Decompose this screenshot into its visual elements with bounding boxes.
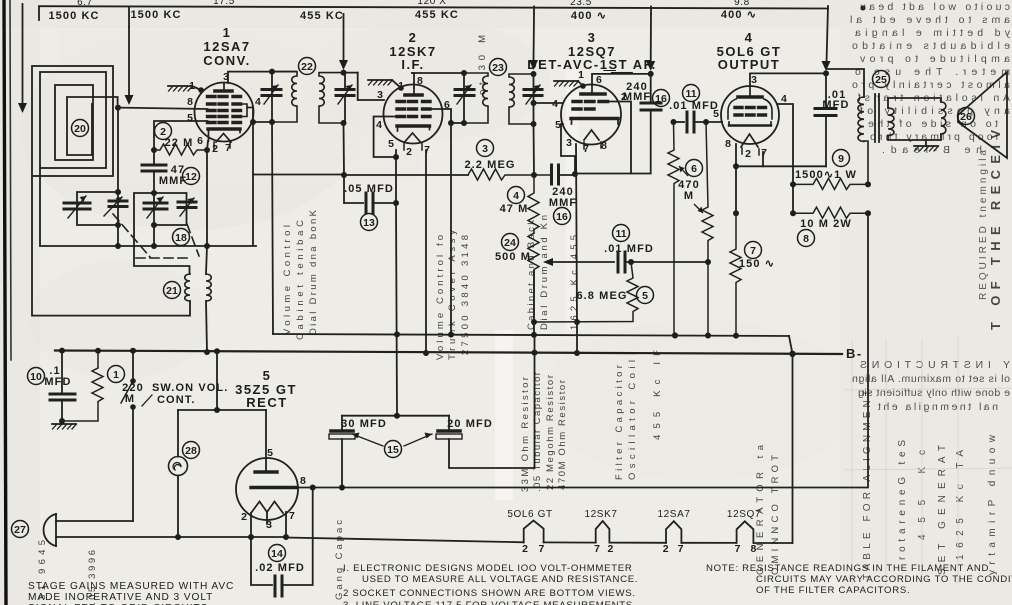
svg-text:3: 3 xyxy=(377,89,383,101)
svg-text:12: 12 xyxy=(185,171,197,183)
B- drop to heater string xyxy=(792,354,794,543)
svg-text:OUTPUT: OUTPUT xyxy=(718,57,780,72)
svg-text:nal tnemngila eht: nal tnemngila eht xyxy=(878,401,998,413)
arrows from 470M label xyxy=(679,166,688,176)
svg-text:MFD: MFD xyxy=(44,376,71,388)
svg-text:24: 24 xyxy=(504,237,516,249)
cap 20MFD C15b xyxy=(448,416,450,429)
svg-text:16: 16 xyxy=(556,211,568,223)
svg-text:1: 1 xyxy=(113,369,119,381)
svg-text:10 M 2W: 10 M 2W xyxy=(800,218,852,230)
svg-text:7: 7 xyxy=(424,144,430,156)
svg-text:11: 11 xyxy=(615,228,626,240)
tube T3 12SQ7 envelope xyxy=(561,85,621,145)
resistor 6.8MEG R5 xyxy=(534,262,638,322)
svg-text:7: 7 xyxy=(289,510,295,522)
second 470M zigzag R6b x708 xyxy=(702,122,713,338)
osc coil L21 left winding xyxy=(185,274,190,301)
svg-text:3: 3 xyxy=(223,71,229,83)
svg-text:cuoito wol adt beau: cuoito wol adt beau xyxy=(860,1,1010,13)
svg-text:rotareneG teS: rotareneG teS xyxy=(897,440,908,560)
svg-text:2: 2 xyxy=(160,126,166,138)
svg-text:CONV.: CONV. xyxy=(203,53,250,68)
T2 top wire xyxy=(412,73,414,88)
callout 27 power plug xyxy=(12,521,29,538)
svg-text:5: 5 xyxy=(263,368,272,383)
svg-text:DET-AVC-1͟S͟T͟ AF.: DET-AVC-1͟S͟T͟ AF. xyxy=(527,57,656,74)
svg-text:455 Kc IF: 455 Kc IF xyxy=(652,350,663,440)
callout 3 resistor 2.2MEG xyxy=(477,140,494,157)
node 118,192 xyxy=(115,189,121,195)
svg-text:ams to theve edt al: ams to theve edt al xyxy=(850,14,1010,26)
svg-text:1: 1 xyxy=(578,69,584,81)
header drop right + arrow xyxy=(827,6,829,63)
svg-text:5: 5 xyxy=(642,290,648,302)
svg-text:8: 8 xyxy=(725,138,731,150)
middle faint vertical text columns xyxy=(37,35,781,605)
svg-text:20 MFD: 20 MFD xyxy=(447,418,493,430)
T1 pin4 wire xyxy=(247,108,253,246)
callout 9 resistor 1500 xyxy=(833,150,850,167)
callout 12 capacitor 47MMF xyxy=(183,168,200,185)
cap .01MFD C11a xyxy=(617,252,620,272)
svg-text:5: 5 xyxy=(555,119,561,131)
IF1 secondary coil xyxy=(319,73,344,123)
svg-text:4: 4 xyxy=(513,190,519,202)
callout 18 tuning gang xyxy=(173,229,190,246)
right vertical mirrored headline xyxy=(988,130,1003,330)
svg-text:120 X: 120 X xyxy=(417,0,446,7)
svg-text:25: 25 xyxy=(875,74,887,86)
svg-text:6: 6 xyxy=(691,163,697,175)
wire x154 down xyxy=(153,193,155,246)
svg-text:16: 16 xyxy=(655,93,667,105)
svg-text:2: 2 xyxy=(607,543,613,555)
T2 filament pin stubs xyxy=(403,143,405,150)
node 272,71.6 xyxy=(269,69,275,75)
screen riser x793 xyxy=(778,104,793,213)
svg-text:15: 15 xyxy=(387,444,399,456)
header rule xyxy=(39,6,828,8)
transformer core xyxy=(875,94,879,142)
socket hump 12SQ7 xyxy=(737,521,754,543)
svg-text:SW.ON VOL.: SW.ON VOL. xyxy=(152,382,228,394)
callout 11 capacitor .01MFD coupling xyxy=(683,85,700,102)
voice coil xyxy=(941,102,946,134)
wire: loop bottom to tuning line xyxy=(40,168,118,246)
resistor 2.2MEG R3 xyxy=(468,169,552,180)
callout 21 oscillator coil xyxy=(164,282,181,299)
cap 240MMF C16b xyxy=(650,74,652,103)
callout 13 capacitor .05MFD xyxy=(361,214,378,231)
svg-text:.02 MFD: .02 MFD xyxy=(255,562,305,574)
callout 2 resistor 22M xyxy=(155,123,172,140)
svg-text:21: 21 xyxy=(166,285,178,297)
callout 8 resistor 10M xyxy=(798,230,815,247)
right lower bleed horizontal lines xyxy=(852,359,1010,413)
svg-text:7: 7 xyxy=(750,245,756,257)
T3 pin3 cathode down xyxy=(576,144,577,322)
ground at speaker xyxy=(925,140,927,146)
T4 pin7 stub xyxy=(762,152,764,166)
callout slash for switch xyxy=(142,395,152,406)
output transformer T25 primary xyxy=(858,97,864,141)
B+ riser x868 down xyxy=(297,213,868,487)
callout 10 capacitor .1MFD xyxy=(28,368,45,385)
volume pot 500M R24 xyxy=(528,233,539,316)
svg-text:3: 3 xyxy=(751,74,757,86)
svg-text:13: 13 xyxy=(363,217,375,229)
svg-text:T OF THE RECEIV: T OF THE RECEIV xyxy=(988,130,1003,330)
resistor 1500 R9 xyxy=(793,178,868,189)
bus1 y335 xyxy=(273,334,789,336)
speaker cone xyxy=(958,72,1007,158)
cap .01MFD C11b coupling xyxy=(674,121,685,123)
svg-text:MFD: MFD xyxy=(822,99,849,111)
wire IF1 left vertical down to bus1 xyxy=(272,122,273,334)
svg-text:8: 8 xyxy=(750,543,756,555)
svg-text:.01 MFD: .01 MFD xyxy=(669,100,719,112)
node 272,122 xyxy=(269,119,275,125)
T1 internals xyxy=(208,83,248,142)
cap .02MFD C14 xyxy=(251,537,272,585)
faint bleed columns near T3 xyxy=(526,215,550,330)
svg-text:I. ELECTRONIC DESIGNS MODEL: I. ELECTRONIC DESIGNS MODEL IOO VOLT-OHM… xyxy=(343,563,633,574)
svg-text:28: 28 xyxy=(185,445,197,457)
svg-text:RECT: RECT xyxy=(246,395,287,410)
callout 16 capacitor 240MMF grid xyxy=(554,208,571,225)
resistor 150 R7 xyxy=(730,213,741,333)
node 207,352 xyxy=(204,349,210,355)
socket hump 12SK7 xyxy=(596,521,610,543)
svg-text:7: 7 xyxy=(594,543,600,555)
arrows from 15 xyxy=(352,434,383,446)
wire grid line to pin 8 xyxy=(118,108,208,109)
T2 internals xyxy=(397,88,430,142)
svg-text:3: 3 xyxy=(482,143,488,155)
B- bus y352 xyxy=(55,351,842,355)
T3 filament pin stubs xyxy=(583,142,585,149)
svg-text:1: 1 xyxy=(189,80,195,92)
svg-text:CONT.: CONT. xyxy=(157,394,196,406)
switch SW xyxy=(132,351,134,381)
node 253,122 xyxy=(250,119,256,125)
T2 cathode x396 down xyxy=(395,150,397,203)
T1 pin6 wire xyxy=(207,141,208,150)
svg-text:2.2 MEG: 2.2 MEG xyxy=(464,159,515,171)
callout 28 pilot lamp xyxy=(183,442,200,459)
cap 240MMF C16a xyxy=(550,165,553,184)
T1 pin3 top wire xyxy=(228,72,296,83)
cap .1MFD C10 xyxy=(61,351,63,394)
svg-text:6.7: 6.7 xyxy=(77,0,93,8)
svg-text:8: 8 xyxy=(601,140,607,152)
T3 pin6 top wire xyxy=(592,74,651,85)
antenna section tuning box xyxy=(77,192,118,225)
T5 pin stubs xyxy=(250,513,252,537)
svg-text:6: 6 xyxy=(596,74,602,86)
svg-text:2: 2 xyxy=(745,148,751,160)
T1 filament pin stubs xyxy=(213,142,215,149)
svg-text:1500∿1 W: 1500∿1 W xyxy=(795,169,857,181)
arrow at 12SA7 grid wire xyxy=(125,95,134,105)
wire: signal drop to 12SA7 grid xyxy=(128,27,130,96)
header tick x129 top xyxy=(128,7,130,27)
wire IF2 right down to grid network xyxy=(533,124,536,175)
right lower bleed table xyxy=(862,390,998,580)
svg-text:6: 6 xyxy=(197,135,203,147)
node 154,193 xyxy=(151,190,157,196)
svg-text:400 ∿: 400 ∿ xyxy=(721,9,757,21)
svg-text:amplitude to prov: amplitude to prov xyxy=(859,53,1010,65)
svg-text:6: 6 xyxy=(444,99,450,111)
T3 pin5 wire to grid cap xyxy=(561,124,575,175)
wire tuning line y246 xyxy=(118,245,256,247)
svg-text:7: 7 xyxy=(735,543,741,555)
svg-text:30 MFD: 30 MFD xyxy=(341,418,387,430)
AVC riser x674 with 470M R6 xyxy=(668,122,679,336)
svg-text:17.5: 17.5 xyxy=(213,0,235,7)
T2 pin6 wire down xyxy=(430,109,451,123)
IF2 right trimmer xyxy=(524,88,542,91)
jog to output transformer xyxy=(827,69,865,97)
callout 11 capacitor .01MFD wiper xyxy=(613,225,630,242)
T3 internals xyxy=(571,85,618,140)
callout 23 IF transformer 2 xyxy=(490,59,507,76)
svg-text:4: 4 xyxy=(376,119,382,131)
svg-text:5OL6 GT: 5OL6 GT xyxy=(507,509,552,520)
svg-text:11: 11 xyxy=(685,88,696,100)
wire y166 to .01 xyxy=(736,165,826,167)
svg-text:7: 7 xyxy=(583,143,589,155)
svg-text:22: 22 xyxy=(301,61,313,73)
wire: loop outer to osc return xyxy=(32,176,190,316)
header tick left xyxy=(38,7,40,20)
right page bleed horizontal mirrored lines xyxy=(850,1,1010,156)
svg-text:7: 7 xyxy=(538,543,544,555)
svg-text:23.5: 23.5 xyxy=(570,0,592,8)
svg-text:8: 8 xyxy=(803,233,809,245)
arrow drop to T3 xyxy=(650,14,652,64)
node 154,225 xyxy=(151,222,157,228)
T3 pin2 diode wire xyxy=(608,102,632,174)
node 118,246 xyxy=(115,243,121,249)
filter node line y415 xyxy=(342,415,449,417)
svg-text:9: 9 xyxy=(838,153,844,165)
svg-text:47 M: 47 M xyxy=(500,203,529,215)
svg-text:1500 KC: 1500 KC xyxy=(48,10,99,22)
svg-text:150 ∿: 150 ∿ xyxy=(739,258,775,270)
IF2 right vertical from header xyxy=(533,14,536,62)
svg-text:8: 8 xyxy=(300,475,306,487)
plug P27 xyxy=(55,514,57,546)
svg-text:1500 KC: 1500 KC xyxy=(130,9,181,21)
T4 pin3 top wire xyxy=(750,73,826,86)
IF1 T22: left vertical xyxy=(271,72,273,122)
callout 14 capacitor .02MFD xyxy=(269,545,286,562)
page edge lines xyxy=(4,0,6,605)
T1 pin1 ground bracket xyxy=(192,86,201,90)
IF2 T23: left vertical xyxy=(463,73,465,123)
svg-text:14: 14 xyxy=(271,548,283,560)
node 154,246 xyxy=(151,243,157,249)
svg-text:5: 5 xyxy=(267,447,273,459)
callout 15 filter capacitors xyxy=(385,441,402,458)
T2 pin7 wire down to B- xyxy=(425,150,427,353)
T4 internals xyxy=(728,86,772,147)
osc section tuning box xyxy=(134,193,190,274)
svg-text:7: 7 xyxy=(761,147,767,159)
wire x396 cathode down to filter node xyxy=(396,203,397,415)
IF1 left trimmer xyxy=(262,88,281,91)
variable cap osc section xyxy=(144,202,167,205)
node 154,150 xyxy=(151,147,157,153)
node 207,150 xyxy=(204,147,210,153)
svg-text:2: 2 xyxy=(406,146,412,158)
paper speck xyxy=(861,6,864,9)
svg-text:7: 7 xyxy=(678,543,684,555)
svg-text:12SQ7: 12SQ7 xyxy=(727,509,761,520)
svg-text:7: 7 xyxy=(225,142,231,154)
svg-text:2: 2 xyxy=(409,30,418,45)
IF2 secondary coil xyxy=(509,74,533,124)
wire lamp top to T5 plate xyxy=(178,409,266,411)
dashed gang line xyxy=(113,214,150,257)
svg-text:2: 2 xyxy=(522,543,528,555)
svg-text:6.8 MEG: 6.8 MEG xyxy=(576,290,627,302)
svg-text:5: 5 xyxy=(187,112,193,124)
svg-text:B-: B- xyxy=(846,346,863,361)
svg-text:M: M xyxy=(684,190,694,202)
heater string line xyxy=(286,538,524,543)
wiper arrow xyxy=(543,258,553,266)
svg-text:1625 Kc 455: 1625 Kc 455 xyxy=(569,235,580,330)
header tick x651 xyxy=(650,7,652,15)
callout 20 loop antenna xyxy=(72,120,89,137)
svg-text:455 KC: 455 KC xyxy=(415,9,459,21)
.05MFD C13 line xyxy=(344,202,363,204)
T4 pin8 cathode wire xyxy=(735,144,737,166)
svg-text:8: 8 xyxy=(187,96,193,108)
resistor 10M R8 xyxy=(793,207,868,218)
callout 16 capacitor 240MMF plate xyxy=(653,90,670,107)
svg-text:12SK7: 12SK7 xyxy=(584,509,617,520)
AVC line left tail xyxy=(253,174,344,176)
IF2 left trimmer xyxy=(455,88,474,91)
T1 pin5 wire xyxy=(154,121,208,150)
svg-text:3: 3 xyxy=(566,137,572,149)
svg-text:2: 2 xyxy=(663,543,669,555)
wire IF1 primary bottom to pin4 xyxy=(253,121,272,123)
T2 grid top wire from IF1 xyxy=(358,73,384,100)
svg-text:.01 MFD: .01 MFD xyxy=(604,243,654,255)
svg-text:2 SOCKET CONNECTIONS SHOWN: 2 SOCKET CONNECTIONS SHOWN ARE BOTTOM VI… xyxy=(343,588,636,599)
T2 ground bracket xyxy=(392,80,401,88)
svg-text:5: 5 xyxy=(388,138,394,150)
svg-text:3. LINE VOLTAGE 117.5 FOR: 3. LINE VOLTAGE 117.5 FOR VOLTAGE MEASUR… xyxy=(343,600,633,605)
tube T2 12SK7 envelope xyxy=(384,85,443,144)
wire: x118 down from grid node xyxy=(117,108,119,246)
callout 22 IF transformer 1 xyxy=(299,58,316,75)
osc trimmer xyxy=(178,201,196,204)
T3 pin4 wire to IF2 xyxy=(534,102,564,104)
wire osc grid riser x207 xyxy=(206,151,207,274)
node 207,246 xyxy=(204,243,210,249)
IF1 primary coil xyxy=(272,72,297,122)
svg-text:9.8: 9.8 xyxy=(734,0,750,8)
socket hump 5OL6 xyxy=(524,521,544,543)
T2 plate wire to IF2 xyxy=(412,72,464,74)
resistor 47M R4 vertical xyxy=(528,175,539,233)
node 118,225 xyxy=(115,222,121,228)
wire osc right winding to B- xyxy=(206,301,207,352)
IF1 right vertical + trimmer xyxy=(343,14,345,62)
svg-text:OF THE FILTER CAPACITORS.: OF THE FILTER CAPACITORS. xyxy=(756,585,910,596)
svg-text:26: 26 xyxy=(960,111,972,123)
T2 pin4/5 wire xyxy=(374,117,397,158)
svg-text:NOTE: RESISTANCE READINGS I: NOTE: RESISTANCE READINGS IN THE FILAMEN… xyxy=(706,563,989,574)
tube T5 35Z5 envelope xyxy=(236,458,298,520)
socket hump 12SA7 xyxy=(666,521,681,543)
header tick x534 xyxy=(533,7,535,15)
svg-text:ol is set to maximum. All ali: ol is set to maximum. All align xyxy=(852,373,1010,385)
resistor 220M R1 xyxy=(62,351,103,421)
svg-text:12SA7: 12SA7 xyxy=(657,509,690,520)
svg-text:4: 4 xyxy=(745,30,754,45)
cap 47MMF C12 xyxy=(153,150,155,165)
paper shading xyxy=(20,30,360,230)
callout 5 resistor 6.8MEG xyxy=(637,287,654,304)
callout 4 resistor 47M xyxy=(508,187,525,204)
antenna trimmer on x118 xyxy=(109,200,127,203)
svg-text:4: 4 xyxy=(255,96,261,108)
svg-text:3: 3 xyxy=(588,30,597,45)
pilot lamp I28 xyxy=(177,410,179,457)
T3 ground bracket xyxy=(578,81,583,86)
wire IF1 secondary bottom down to AVC line xyxy=(343,123,346,203)
svg-text:27500 3840 3148: 27500 3840 3148 xyxy=(460,235,471,355)
svg-text:455 KC: 455 KC xyxy=(300,10,344,22)
resistor 22M R2 xyxy=(154,144,207,155)
AVC line y175 xyxy=(344,174,468,176)
svg-text:MMF: MMF xyxy=(623,91,651,103)
svg-text:USED TO MEASURE ALL VOLTAGE: USED TO MEASURE ALL VOLTAGE AND RESISTAN… xyxy=(362,574,638,585)
svg-text:20: 20 xyxy=(74,123,86,135)
svg-text:MADE INOPERATIVE AND 3 VOLT: MADE INOPERATIVE AND 3 VOLT xyxy=(28,592,213,603)
callout 25 output transformer xyxy=(873,71,890,88)
svg-text:27: 27 xyxy=(14,524,26,536)
svg-text:10: 10 xyxy=(30,371,42,383)
variable cap antenna section xyxy=(64,202,90,205)
wire x451 down to bus1 xyxy=(450,123,452,334)
svg-text:400 ∿: 400 ∿ xyxy=(571,10,607,22)
svg-text:1: 1 xyxy=(398,80,404,92)
T5 internals xyxy=(265,410,267,472)
wire: signal line into loop xyxy=(22,4,24,104)
arrow into loop xyxy=(18,103,27,113)
svg-text:Dial Drum and Kn: Dial Drum and Kn xyxy=(539,215,550,330)
svg-text:18: 18 xyxy=(175,232,187,244)
svg-text:STAGE GAINS MEASURED WITH AVC: STAGE GAINS MEASURED WITH AVC xyxy=(28,581,234,592)
svg-text:22 M: 22 M xyxy=(165,137,194,149)
svg-text:23: 23 xyxy=(492,62,504,74)
callout 24 volume pot 500M xyxy=(502,234,519,251)
callout 6 resistor 470M xyxy=(686,160,703,177)
svg-text:500 M: 500 M xyxy=(495,251,531,263)
svg-text:470M Ohm Resistor: 470M Ohm Resistor xyxy=(557,380,568,490)
svg-text:12SA7: 12SA7 xyxy=(203,39,250,54)
svg-text:8: 8 xyxy=(417,75,423,87)
